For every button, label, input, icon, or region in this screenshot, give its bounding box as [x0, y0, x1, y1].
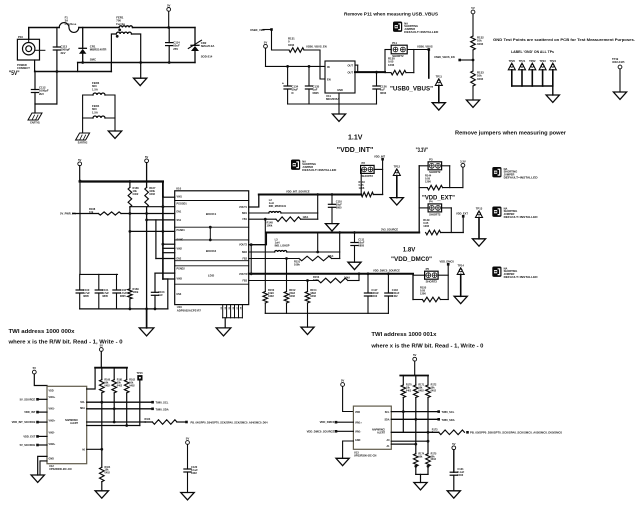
wire P4 right down — [450, 208, 452, 233]
wire row10 tail link — [163, 278, 168, 280]
label R133 value — [477, 71, 484, 81]
resistor R161 — [112, 380, 117, 393]
chassis ground C112 — [28, 113, 42, 125]
diode CR1 — [79, 48, 86, 54]
svg-text:FB2: FB2 — [242, 258, 247, 261]
wire buck2 riser — [339, 233, 341, 259]
junction R162 CRIT — [125, 424, 128, 427]
svg-text:0805: 0805 — [313, 91, 320, 95]
ground U10 pad — [216, 328, 231, 336]
svg-text:TP15: TP15 — [137, 371, 144, 375]
svg-text:VIN2: VIN2 — [177, 247, 183, 250]
svg-text:0402: 0402 — [129, 384, 135, 387]
wire jack to bottom rail — [34, 60, 36, 72]
svg-text:0402: 0402 — [117, 384, 123, 387]
wire cap bank feed — [79, 181, 81, 274]
label U10 part number — [177, 305, 202, 312]
svg-text:1nF: 1nF — [158, 293, 163, 297]
wire R164 column link — [101, 449, 103, 467]
net label USB0_VBUS_EN top — [306, 45, 327, 49]
node TWI0_SDA left — [151, 408, 154, 411]
junction R171 SDA — [414, 418, 417, 421]
jumper P3 — [428, 158, 442, 175]
ground divider — [466, 100, 479, 107]
ground input section — [134, 78, 147, 85]
svg-text:VDD_DMC0: VDD_DMC0 — [440, 259, 455, 263]
net label alert right — [470, 431, 562, 435]
wire reg top rail — [80, 180, 163, 182]
svg-text:UPS2R300-I2C-CN: UPS2R300-I2C-CN — [49, 467, 72, 471]
label R164 value — [105, 466, 111, 475]
label C110 value — [336, 200, 343, 210]
gnd test point TP21 — [519, 59, 526, 70]
ground TP19 — [613, 92, 626, 99]
label FER4 value — [92, 104, 100, 114]
wire R164 bottom — [101, 482, 103, 491]
label L3 value — [275, 237, 290, 247]
wire R160 top — [101, 368, 103, 380]
label R170 value — [406, 384, 412, 393]
wire bottom pin tie — [223, 317, 243, 319]
label R131 value — [288, 37, 295, 47]
test point TP13 — [476, 207, 483, 218]
wire R162 column — [126, 393, 128, 426]
wire C120 bottom — [187, 472, 189, 493]
ground usb section — [332, 114, 345, 121]
wire U12 pad gnd — [40, 461, 47, 475]
wire R155 right — [440, 299, 448, 301]
svg-text:P4: P4 — [429, 200, 433, 204]
wire C135 bottom — [308, 89, 310, 104]
svg-text:TWI address 1000 001x: TWI address 1000 001x — [371, 332, 437, 338]
wire C102 bottom — [116, 293, 118, 309]
svg-text:0402: 0402 — [105, 471, 111, 474]
wire R170 top — [402, 376, 404, 386]
wire U13 pullup rail — [400, 375, 428, 377]
label CR2 package — [201, 55, 213, 59]
svg-text:DEFAULT=INSTALLED: DEFAULT=INSTALLED — [302, 168, 336, 172]
junction rail R166 — [129, 180, 132, 183]
label U12 part — [49, 464, 72, 471]
note remove P11 — [344, 11, 438, 16]
wire SW1 — [249, 212, 269, 214]
ground C120 — [181, 493, 194, 500]
wire OUT1 merge — [357, 65, 359, 72]
wire TP22 down — [531, 70, 533, 86]
label CR2 value — [201, 41, 215, 48]
label C135 value — [313, 85, 320, 95]
note TWI rw left — [7, 340, 122, 346]
svg-text:"3.3V": "3.3V" — [416, 147, 429, 154]
node TWI0_SCL left — [151, 401, 154, 404]
resistor R143 sense — [361, 192, 373, 197]
svg-text:DEFAULT=INSTALLED: DEFAULT=INSTALLED — [504, 176, 538, 180]
svg-text:SMAJ5.0A: SMAJ5.0A — [201, 44, 215, 48]
net label VDD_EXT — [456, 211, 468, 215]
svg-text:OUT: OUT — [348, 64, 354, 68]
svg-text:GND: GND — [49, 457, 55, 460]
wire U12 pin VDD_INT — [38, 411, 48, 413]
wire R171 column — [415, 398, 417, 445]
svg-text:USB0_VBUS_EN: USB0_VBUS_EN — [306, 45, 327, 49]
power connector P10 — [17, 35, 45, 70]
shorting jumper note 4 — [492, 266, 537, 279]
svg-text:VDD: VDD — [355, 411, 360, 414]
wire P5 right — [438, 274, 448, 276]
ground TP11 — [432, 103, 445, 110]
svg-text:EN2: EN2 — [177, 257, 182, 260]
pin number 33 — [221, 306, 223, 309]
svg-text:BUCK2: BUCK2 — [206, 249, 217, 253]
svg-text:SHORT2: SHORT2 — [429, 212, 441, 216]
junction C114 rail A — [168, 61, 171, 64]
ferrite FER4 — [93, 116, 105, 118]
gnd test point TP24 — [549, 59, 556, 70]
svg-text:0402: 0402 — [392, 294, 398, 298]
wire TP20 down — [511, 70, 513, 86]
power flag 5V reg left — [78, 158, 82, 166]
capacitor C113 — [53, 47, 60, 50]
ground TP14 — [454, 296, 467, 303]
pin stub bottom 37 — [238, 305, 240, 318]
svg-text:P10: P10 — [18, 35, 23, 39]
svg-text:EN: EN — [327, 78, 331, 82]
junction A1 col — [414, 443, 417, 446]
wire R161 top — [113, 368, 115, 380]
svg-text:1206: 1206 — [423, 224, 429, 228]
svg-text:1206: 1206 — [425, 180, 431, 184]
svg-text:0402: 0402 — [268, 294, 274, 298]
label C121 value — [457, 467, 464, 477]
wire col R166 down — [129, 207, 131, 289]
test pad TP19 — [618, 65, 622, 69]
wire U13 pin dmc0_source — [336, 430, 353, 432]
wire OUT bus — [355, 71, 385, 73]
wire left bottom rail B — [35, 71, 112, 73]
label 1.1V — [348, 135, 363, 142]
svg-text:5V: 5V — [413, 353, 417, 357]
wire R166 top — [129, 182, 131, 188]
wire VDD_EXT stub — [462, 216, 464, 232]
junction riser2 — [316, 251, 319, 254]
wire pin row 7 — [163, 247, 175, 249]
svg-text:Remove P11 when measuring USB_: Remove P11 when measuring USB_VBUS — [344, 11, 438, 16]
net label VDD_EXT — [23, 434, 35, 438]
junction row5 col1 — [129, 230, 132, 233]
label R148 value — [267, 221, 274, 228]
net label VDD_DMC0_SOURCE — [373, 269, 400, 273]
wire TP13 down — [478, 218, 480, 239]
net label VDD_DMC0 — [440, 259, 455, 263]
wire P2 left up — [360, 169, 362, 194]
wire loop drop — [56, 72, 58, 105]
svg-text:10k: 10k — [418, 455, 423, 458]
capacitor C102 — [113, 290, 120, 293]
svg-text:0402: 0402 — [289, 294, 295, 298]
svg-text:VDD_INT: VDD_INT — [24, 410, 36, 414]
rail VDD_INT_SOURCE — [259, 194, 361, 196]
wire loop bottom — [35, 103, 57, 105]
ground U12 — [31, 475, 44, 482]
svg-text:TWI0_SCL: TWI0_SCL — [156, 401, 169, 405]
svg-text:TWI0_SDA: TWI0_SDA — [156, 407, 169, 411]
node TWI0_SCL right — [437, 410, 440, 413]
svg-text:5V: 5V — [167, 3, 171, 7]
net label VDD_INT — [374, 154, 386, 158]
wire col R167 down — [146, 207, 148, 328]
node U12 VDD_EXT — [36, 435, 39, 438]
node U12 5V_SOURCE — [36, 398, 39, 401]
wire C100 top — [79, 274, 81, 290]
svg-text:25V: 25V — [173, 47, 178, 51]
wire shunt right up — [413, 50, 415, 73]
svg-text:VDD_DMC0: VDD_DMC0 — [320, 420, 335, 424]
wire U13 pullup stem — [414, 361, 416, 375]
junction gnd rail col2 — [145, 308, 148, 311]
note remove jumpers — [455, 131, 567, 137]
wire pulldown tie — [416, 473, 428, 475]
resistor R132 — [471, 36, 476, 50]
label C111 value — [358, 238, 364, 248]
wire R152 bottom — [286, 303, 288, 313]
svg-text:GND: GND — [337, 88, 343, 92]
svg-text:TP11: TP11 — [436, 75, 443, 79]
note label gnd — [511, 50, 554, 54]
net label TWI0_SDA right — [442, 418, 455, 422]
ground cap bank — [139, 328, 154, 336]
resistor R162 — [124, 380, 129, 393]
svg-text:VIN2+: VIN2+ — [49, 420, 56, 423]
svg-text:3V3_SOURCE: 3V3_SOURCE — [381, 227, 398, 231]
power flag 5V usb — [264, 40, 268, 48]
wire EN drop — [320, 50, 325, 79]
wire vout link — [250, 245, 252, 274]
note TWI address left — [9, 329, 76, 335]
wire TP19 down — [619, 69, 621, 92]
test point TP11 — [435, 75, 442, 86]
shorting jumper note 2 — [492, 167, 537, 180]
svg-text:FB3: FB3 — [242, 280, 247, 283]
pin number 35 — [229, 306, 231, 309]
junction FB2 col — [285, 257, 288, 260]
svg-text:0805: 0805 — [358, 244, 364, 248]
jumper P11 — [391, 41, 407, 58]
label R172 value — [431, 384, 437, 393]
power flag 5V U13 pullups — [413, 353, 417, 361]
svg-text:VIN3+: VIN3+ — [49, 443, 56, 446]
wire tp15 stem — [139, 381, 141, 426]
ground fb dividers — [301, 327, 314, 334]
wire SDA row — [87, 408, 153, 410]
wire C134 bottom — [287, 89, 289, 104]
svg-text:UPS2R300-I2C-CN: UPS2R300-I2C-CN — [354, 454, 377, 458]
svg-text:5V_SOURCE: 5V_SOURCE — [20, 397, 36, 401]
wire C112 top — [34, 71, 36, 90]
svg-text:EN1: EN1 — [177, 211, 182, 214]
wire rail A-B link — [77, 63, 79, 72]
wire pin row 9 — [155, 272, 175, 274]
wire U13 A1 — [391, 444, 416, 454]
svg-text:5V: 5V — [186, 437, 190, 441]
wire C136 bottom — [376, 89, 378, 104]
svg-text:TP22: TP22 — [529, 59, 536, 63]
svg-text:P2: P2 — [362, 161, 366, 165]
wire right bottom rail — [141, 62, 195, 64]
svg-text:where x is the R/W bit. Read -: where x is the R/W bit. Read - 1, Write … — [7, 340, 122, 346]
wire gnd tp bus — [512, 85, 553, 87]
note TWI address right — [371, 332, 437, 338]
power flag 5V U13 left — [341, 379, 345, 387]
resistor R148 — [276, 217, 301, 222]
svg-text:MIC2005A: MIC2005A — [326, 97, 339, 101]
wire R150 bottom — [264, 303, 266, 313]
test pad TP15 — [137, 371, 144, 381]
note gnd test points — [493, 37, 635, 42]
pin stub bottom 38 — [241, 305, 243, 318]
wire P5 left — [413, 274, 425, 276]
label "5V" input — [9, 70, 20, 77]
wire div bottom — [472, 86, 474, 100]
wire usb gnd rail — [288, 103, 377, 105]
wire pin row 6 — [163, 243, 175, 245]
svg-text:VIN3: VIN3 — [177, 277, 183, 280]
label R167 value — [149, 186, 156, 196]
resistor R160 — [100, 380, 105, 393]
node VDD_INT — [381, 158, 384, 161]
power flag 5V input node — [167, 3, 171, 11]
ground U13 — [336, 458, 349, 465]
node VDD_DMC0 — [447, 263, 450, 266]
net label USB0_VBUS — [417, 44, 433, 48]
pin number 36 — [233, 306, 235, 309]
net label VDD_INT_SOURCE — [286, 189, 310, 193]
label R130 value — [388, 57, 395, 67]
svg-text:100k: 100k — [133, 290, 139, 294]
wire R161 column — [113, 393, 115, 422]
capacitor C121 — [450, 472, 457, 475]
svg-text:ALERT: ALERT — [377, 431, 386, 434]
resistor R152 — [284, 292, 289, 304]
test point TP12 — [393, 165, 400, 176]
svg-text:0402: 0402 — [191, 471, 197, 475]
ferrite FER3 — [93, 93, 105, 95]
svg-text:SHORT2: SHORT2 — [426, 280, 438, 284]
wire TP11 down — [438, 85, 440, 102]
wire C103 top — [154, 273, 156, 292]
capacitor C100 — [76, 290, 83, 293]
wire pin row 8 — [163, 252, 175, 254]
svg-text:0402: 0402 — [431, 389, 437, 392]
wire fb gnd drop — [307, 313, 309, 327]
wire R174 bottom — [415, 466, 417, 474]
net label 3V3_SOURCE — [381, 227, 398, 231]
svg-text:12k1: 12k1 — [303, 215, 309, 219]
wire CR2 bottom — [194, 51, 196, 63]
capacitor C120 — [184, 469, 191, 472]
wire FB2 col — [286, 259, 288, 292]
wire SCL row — [87, 401, 153, 403]
wire R144 left — [419, 187, 427, 189]
label "USB0_VBUS" — [390, 86, 433, 92]
label R144 value — [425, 174, 432, 184]
capacitor C101 — [95, 290, 102, 293]
wire fb gnd rail — [265, 312, 388, 314]
wire FB3 — [249, 280, 319, 282]
power flag 5V reg mid — [145, 155, 149, 163]
wire shunt left — [385, 72, 391, 74]
wire C112 to chassis — [34, 93, 36, 114]
junction gnd rail R169 — [129, 308, 132, 311]
capacitor C134 polarized — [282, 82, 291, 90]
svg-text:1.5A: 1.5A — [92, 110, 98, 114]
junction C136 top — [375, 71, 378, 74]
pin number 38 — [241, 306, 243, 309]
junction col3 pin6 — [162, 243, 165, 246]
label R143 value — [359, 180, 366, 190]
wire R155 left — [413, 299, 422, 301]
label R169 value — [133, 287, 140, 294]
wire left bottom rail A — [78, 62, 141, 64]
svg-text:TP23: TP23 — [539, 59, 546, 63]
label R174 value — [418, 452, 424, 458]
wire reg feed column — [162, 182, 164, 197]
net label TWI0_SDA left — [156, 407, 169, 411]
wire P11 left — [385, 49, 391, 51]
svg-text:0402: 0402 — [310, 294, 316, 298]
wire pullup rail — [95, 367, 127, 369]
svg-text:SDA: SDA — [384, 419, 389, 422]
wire C114 bottom — [168, 46, 170, 63]
wire usb 5V stem — [265, 48, 267, 66]
junction vout link top — [250, 243, 253, 246]
svg-text:USB0_VBUS_EN: USB0_VBUS_EN — [434, 55, 455, 59]
label R150 value — [268, 288, 275, 298]
svg-text:MBRS140TR: MBRS140TR — [90, 48, 107, 52]
node U13 VDD_DMC0_SOURCE — [335, 430, 338, 433]
wire R172 top — [427, 376, 429, 386]
svg-text:ADP5052ACPZ-R7: ADP5052ACPZ-R7 — [177, 308, 202, 312]
label C120 value — [191, 465, 198, 475]
net label alert left — [191, 420, 268, 424]
pin stub bottom 33 — [222, 305, 224, 318]
svg-text:TP13: TP13 — [476, 207, 483, 211]
label R162 value — [129, 379, 135, 388]
svg-text:GND: GND — [355, 439, 361, 442]
label F1 value — [65, 16, 77, 26]
label R163 value — [145, 418, 151, 424]
svg-text:5V_SOURCE: 5V_SOURCE — [20, 443, 36, 447]
wire SW2 — [249, 251, 275, 253]
label C113 value — [61, 45, 71, 55]
wire div top — [472, 14, 474, 36]
wire FB2 — [249, 258, 299, 260]
wire R175 bottom — [427, 466, 429, 474]
svg-text:VOUT3: VOUT3 — [239, 273, 248, 276]
capacitor C118 — [385, 293, 392, 296]
wire ldo riser — [358, 274, 360, 281]
resistor R164 — [100, 467, 105, 481]
junction C118 top — [387, 272, 390, 275]
power flag 5V U12 — [32, 366, 36, 374]
wire rail to vdd — [87, 368, 95, 389]
svg-text:IND_LOHSP: IND_LOHSP — [275, 243, 290, 247]
junction R161 ALERT — [113, 421, 116, 424]
svg-text:D: D — [292, 91, 294, 95]
junction tie L — [414, 465, 417, 468]
svg-text:0402: 0402 — [406, 389, 412, 392]
label R152 value — [289, 288, 296, 298]
net label VDD_INT_SOURCE — [12, 420, 36, 424]
